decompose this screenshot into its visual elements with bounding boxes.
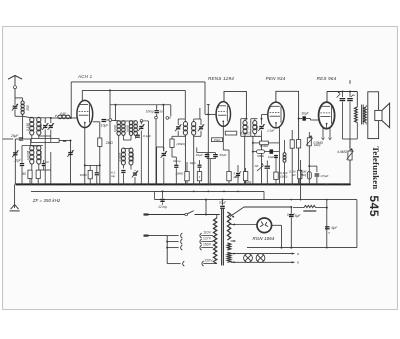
- svg-text:545: 545: [367, 195, 381, 217]
- selector right contacts: [200, 233, 202, 238]
- capacitor pen bottom: [265, 166, 270, 167]
- svg-text:0,0008: 0,0008: [26, 151, 30, 161]
- power transformer primary: [219, 215, 221, 218]
- trimmer osc 2: [133, 172, 137, 173]
- wire L91 anode line: [82, 89, 185, 91]
- wire interstage: [299, 118, 302, 120]
- tube RENS1294: [216, 102, 230, 127]
- wire RGN cathode: [272, 224, 282, 226]
- wire top line L82: [71, 81, 205, 83]
- lamp 1: [244, 254, 253, 263]
- potentiometer 0,5MO: [307, 138, 311, 146]
- wire cap70 to core: [222, 208, 224, 210]
- svg-text:50kΩ: 50kΩ: [257, 154, 265, 158]
- speaker: [375, 110, 382, 120]
- wire RGN anode: [231, 224, 258, 226]
- trimmer osc 1: [139, 126, 143, 127]
- wire grid feed 040: [38, 117, 40, 119]
- svg-text:0,0005: 0,0005: [39, 151, 43, 161]
- svg-text:25μF: 25μF: [10, 134, 19, 138]
- tick: [349, 80, 351, 84]
- svg-text:10μF: 10μF: [189, 161, 196, 165]
- transformer core: [361, 105, 363, 125]
- resistor 50kO pen pill: [257, 150, 265, 154]
- trimmer cap gang 1: [44, 119, 46, 124]
- svg-text:MΩ): MΩ): [301, 173, 307, 177]
- svg-text:(3kΩ): (3kΩ): [280, 175, 287, 179]
- tube RGN1064: [257, 218, 272, 233]
- svg-text:150V: 150V: [203, 243, 212, 247]
- inductor tuning coil 0,180: [30, 117, 34, 122]
- capacitor tone 1: [341, 92, 343, 98]
- resistor 30kO: [170, 139, 174, 147]
- choke coil pen: [284, 140, 286, 153]
- svg-text:000: 000: [255, 125, 259, 130]
- svg-text:50: 50: [22, 172, 26, 176]
- resistor plate: [290, 140, 294, 148]
- trimmer mid-left: [68, 152, 72, 153]
- wire transformer bottom: [342, 138, 357, 140]
- svg-text:10μF: 10μF: [101, 123, 109, 127]
- resistor 1MO right: [243, 172, 247, 181]
- wire tank top: [39, 117, 51, 119]
- IF transformer T2 tank A: [184, 119, 186, 122]
- output transformer primary: [356, 92, 358, 108]
- node circle 3: [166, 117, 169, 120]
- trimmer cap gang 2: [50, 119, 52, 124]
- speaker frame: [368, 92, 379, 139]
- svg-text:RENS 1294: RENS 1294: [208, 76, 234, 81]
- heater pins RES: [322, 128, 324, 138]
- power transformer core: [221, 209, 223, 266]
- trimmer T3: [259, 126, 263, 127]
- resistor 0,1M pill: [307, 172, 311, 179]
- wire heater line 1: [231, 253, 295, 255]
- IF transformer T2 tank B: [194, 118, 201, 120]
- resistor 1MO: [36, 170, 40, 178]
- inductor osc coils lower: [121, 148, 125, 153]
- svg-text:0,5μF: 0,5μF: [321, 174, 329, 178]
- wire tap4: [167, 263, 180, 265]
- svg-text:002: 002: [26, 105, 30, 111]
- ground: [14, 184, 16, 208]
- tube PEN934: [268, 102, 284, 128]
- capacitor tone 2: [349, 92, 351, 98]
- svg-text:Telefunken: Telefunken: [371, 146, 381, 189]
- wire osc verticals: [175, 112, 177, 185]
- inductor coil 0,0005: [37, 145, 41, 150]
- tube RES964: [319, 102, 335, 129]
- wire antenna join: [15, 115, 23, 117]
- antenna: [8, 76, 15, 80]
- trimmer cap mid: [236, 173, 240, 174]
- svg-text:0,005: 0,005: [113, 125, 117, 133]
- svg-text:PEN 934: PEN 934: [266, 76, 286, 81]
- resistor 2MO mid: [197, 172, 201, 181]
- junction dots: [21, 183, 23, 185]
- resistor 25kO horizontal: [212, 138, 223, 142]
- svg-text:,0μF: ,0μF: [14, 159, 21, 163]
- svg-text:2,5μF: 2,5μF: [266, 129, 275, 133]
- capacitor osc lower: [121, 170, 125, 171]
- svg-text:60mμ: 60mμ: [173, 159, 181, 163]
- capacitor 0,5uF right: [315, 173, 320, 174]
- lamp 2: [256, 254, 265, 263]
- capacitor 10uF dark: [270, 149, 274, 153]
- wire plate out: [93, 121, 100, 123]
- svg-text:0,005: 0,005: [126, 125, 130, 133]
- wire ground bus: [16, 183, 350, 185]
- capacitor 8uF: [289, 214, 294, 215]
- inductor coil 0,0008: [30, 145, 34, 150]
- svg-text:1(kΩ): 1(kΩ): [314, 143, 321, 147]
- wire PEN grid: [262, 114, 268, 116]
- inductor antenna coil 002: [21, 101, 24, 105]
- svg-text:25kΩ: 25kΩ: [214, 138, 221, 142]
- svg-text:(30kΩ): (30kΩ): [177, 142, 186, 146]
- wire T3 to PEN grid: [248, 118, 262, 120]
- IF transformer T3 tank A: [241, 118, 248, 120]
- wire PEN plate loop: [276, 91, 299, 184]
- svg-text:ACH 1: ACH 1: [77, 74, 93, 79]
- svg-text:RGN 1064: RGN 1064: [253, 236, 275, 241]
- inductor osc coils: [117, 121, 121, 125]
- svg-text:0,180: 0,180: [26, 123, 30, 131]
- wire tap2: [166, 241, 168, 243]
- svg-text:10mμ: 10mμ: [146, 110, 154, 114]
- output transformer secondary: [363, 107, 366, 123]
- inductor 040: [51, 117, 58, 119]
- power transformer secondary: [227, 212, 230, 240]
- wire sec tap mid: [231, 240, 236, 242]
- tone control zigzag: [304, 205, 316, 207]
- svg-text:RES 964: RES 964: [317, 76, 337, 81]
- capacitor 0,1uF osc: [136, 135, 140, 136]
- node circle small: [140, 120, 143, 123]
- wire bottom loop: [247, 247, 357, 249]
- svg-text:ZF = 350 kHz: ZF = 350 kHz: [32, 198, 61, 203]
- svg-text:0,0005: 0,0005: [118, 152, 122, 161]
- svg-text:100Ω: 100Ω: [80, 173, 88, 177]
- capacitor 12m: [162, 191, 164, 198]
- wire 0,1M branch: [308, 165, 310, 167]
- wire mains top: [144, 235, 168, 237]
- svg-text:390: 390: [39, 124, 43, 130]
- wire cathode ACH1: [84, 128, 86, 185]
- wire heater line 2: [231, 261, 295, 263]
- wire tank bottom: [39, 135, 51, 137]
- svg-text:0,1μF: 0,1μF: [143, 134, 151, 138]
- trimmer mid: [162, 153, 166, 154]
- wire RENS cathode: [223, 126, 225, 184]
- wire vertical 284: [283, 127, 285, 184]
- resistor 100O cathode: [88, 170, 92, 178]
- wire HT diagonal: [230, 207, 244, 217]
- capacitor cathode bypass: [95, 172, 99, 173]
- trimmer antenna: [13, 152, 17, 153]
- wire tap3: [166, 247, 168, 249]
- svg-text:0,0005: 0,0005: [131, 152, 135, 161]
- svg-text:000: 000: [245, 125, 249, 130]
- wire RENS plate loop: [224, 91, 246, 119]
- capacitor 10m: [43, 160, 45, 163]
- wire L82 right drop: [204, 82, 206, 115]
- resistor long horizontal: [31, 139, 59, 143]
- wire PEN plate down: [291, 130, 293, 140]
- wire RES plate loop: [327, 91, 357, 93]
- wire cathode tee: [84, 164, 86, 166]
- svg-text:10μF: 10μF: [268, 155, 275, 159]
- capacitor 6uF: [325, 226, 330, 227]
- resistor 0,1MO: [298, 170, 302, 178]
- wire bus2: [31, 190, 264, 192]
- svg-text:040: 040: [60, 112, 66, 116]
- svg-text:12 mμ: 12 mμ: [158, 205, 167, 209]
- capacitor 10uF plate: [102, 119, 107, 120]
- wire right verticals: [300, 160, 302, 200]
- svg-text:4-6MΩ: 4-6MΩ: [337, 150, 347, 154]
- wire tap1: [167, 235, 178, 237]
- wire lead-in: [3, 138, 14, 140]
- wire RENS grid: [207, 105, 209, 185]
- wire switch lead: [144, 214, 186, 216]
- resistor 0,1uF 3kO: [274, 172, 278, 180]
- resistor 0,5MO horizontal: [225, 131, 237, 135]
- wire bus3: [155, 199, 357, 201]
- inductor tuning coil 390: [37, 117, 41, 122]
- node circle 2: [155, 116, 158, 119]
- svg-text:0,5MΩ: 0,5MΩ: [240, 132, 250, 136]
- capacitor 10uF small: [198, 165, 202, 166]
- svg-text:50: 50: [159, 110, 163, 114]
- svg-text:10μF: 10μF: [196, 153, 203, 157]
- resistor second: [297, 140, 301, 148]
- svg-text:0,5MΩ: 0,5MΩ: [260, 144, 269, 148]
- wire T3 bottom: [241, 135, 262, 137]
- resistor 5kO: [227, 172, 231, 181]
- svg-text:2MΩ: 2MΩ: [105, 141, 114, 145]
- node connector circle: [106, 119, 109, 121]
- tube ACH1: [77, 100, 93, 127]
- resistor 10MO mid: [185, 172, 189, 181]
- svg-text:mμ: mμ: [111, 174, 116, 178]
- svg-text:110V: 110V: [203, 230, 211, 234]
- wire line A y104.7: [110, 104, 171, 106]
- switch: [185, 213, 188, 216]
- resistor 0,5MO pen: [260, 141, 269, 145]
- resistor 2MO: [98, 138, 102, 146]
- wire PEN cathode: [278, 126, 280, 184]
- wire after long resistor: [59, 140, 70, 142]
- NF feedback: [257, 165, 264, 171]
- IF transformer T3 tank B: [251, 118, 258, 120]
- svg-text:10μF: 10μF: [301, 112, 309, 116]
- svg-text:127V: 127V: [203, 237, 212, 241]
- svg-text:220V: 220V: [204, 258, 213, 262]
- svg-text:65μF: 65μF: [220, 153, 227, 157]
- svg-text:10: 10: [45, 160, 49, 164]
- trimmer antenna series: [13, 106, 18, 107]
- svg-text:10MΩ: 10MΩ: [175, 172, 184, 176]
- svg-text:NF: NF: [255, 164, 259, 168]
- wire antenna split: [15, 97, 23, 99]
